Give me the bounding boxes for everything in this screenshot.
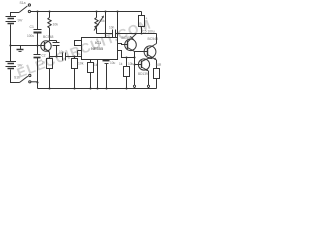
transistor Q3 (144, 44, 156, 61)
wire vcc drop (117, 12, 119, 38)
svg-text:BC558: BC558 (122, 36, 132, 40)
svg-text:10k: 10k (78, 62, 84, 66)
wire Q4 emitter (148, 71, 150, 89)
svg-text:IC1: IC1 (95, 40, 102, 45)
svg-text:50k: 50k (100, 19, 106, 23)
capacitor C1 (34, 30, 42, 46)
svg-text:BC548: BC548 (43, 35, 53, 39)
svg-text:1k: 1k (119, 62, 123, 66)
wire Q1 emitter (49, 52, 51, 58)
svg-text:S1b: S1b (14, 76, 20, 80)
ground mid (17, 46, 24, 52)
IC1 (75, 38, 118, 60)
wire top rail (31, 11, 142, 13)
wire Q3 emitter (156, 60, 158, 69)
trimpot VR1 (94, 12, 104, 34)
resistor R2 (47, 59, 53, 89)
capacitor C3 (34, 46, 41, 89)
svg-text:10k: 10k (128, 62, 134, 66)
node collector Q1 (50, 40, 57, 42)
node wire right (118, 33, 157, 35)
svg-text:1k: 1k (42, 61, 46, 65)
wire pin ground (97, 60, 99, 89)
battery B2 (6, 46, 20, 83)
wire C1 drop (37, 12, 39, 30)
capacitor C5 (113, 30, 118, 38)
svg-text:NE555: NE555 (91, 46, 104, 51)
wire Q3 base (135, 51, 148, 53)
resistor R7 (154, 69, 160, 89)
wire R1 top (49, 12, 51, 18)
svg-text:S1a: S1a (20, 1, 26, 5)
battery B1 (6, 13, 20, 46)
transistor Q2 (125, 34, 142, 52)
resistor R3 (72, 57, 78, 89)
wire Q2 collector bus (134, 52, 136, 89)
svg-text:C1: C1 (30, 25, 34, 29)
svg-text:10R: 10R (156, 63, 163, 67)
switch S1 (19, 4, 31, 13)
resistor R4 (88, 60, 94, 89)
resistor R1 (48, 18, 51, 31)
svg-text:9V: 9V (18, 18, 23, 23)
svg-text:10n: 10n (109, 26, 115, 30)
cell C6 (103, 60, 110, 89)
svg-text:+: + (146, 17, 148, 21)
svg-text:10k: 10k (53, 23, 59, 27)
svg-text:BD139: BD139 (138, 72, 148, 76)
svg-text:100u: 100u (27, 34, 34, 38)
timing wire (97, 33, 113, 35)
wire Q3 collector (156, 34, 158, 44)
resistor R5 (139, 12, 145, 34)
svg-text:10u: 10u (59, 50, 65, 54)
wire base bus (11, 45, 45, 47)
svg-text:10u: 10u (110, 61, 116, 65)
bottom rail (38, 88, 157, 90)
capacitor C4 (63, 53, 82, 61)
IC pin3 wire (118, 44, 128, 45)
transistor Q4 (135, 58, 153, 71)
svg-text:C2: C2 (42, 54, 46, 58)
switch S2 (20, 74, 38, 83)
coupling wire (50, 56, 63, 58)
svg-text:C5 100u: C5 100u (143, 29, 155, 33)
svg-text:9V: 9V (18, 62, 23, 67)
capacitor C2 (53, 41, 60, 57)
IC output wire (118, 51, 135, 58)
resistor R6 (124, 58, 130, 89)
wire wiper rail (105, 12, 107, 38)
transistor Q1 (41, 41, 51, 53)
junction dots (10, 11, 143, 90)
